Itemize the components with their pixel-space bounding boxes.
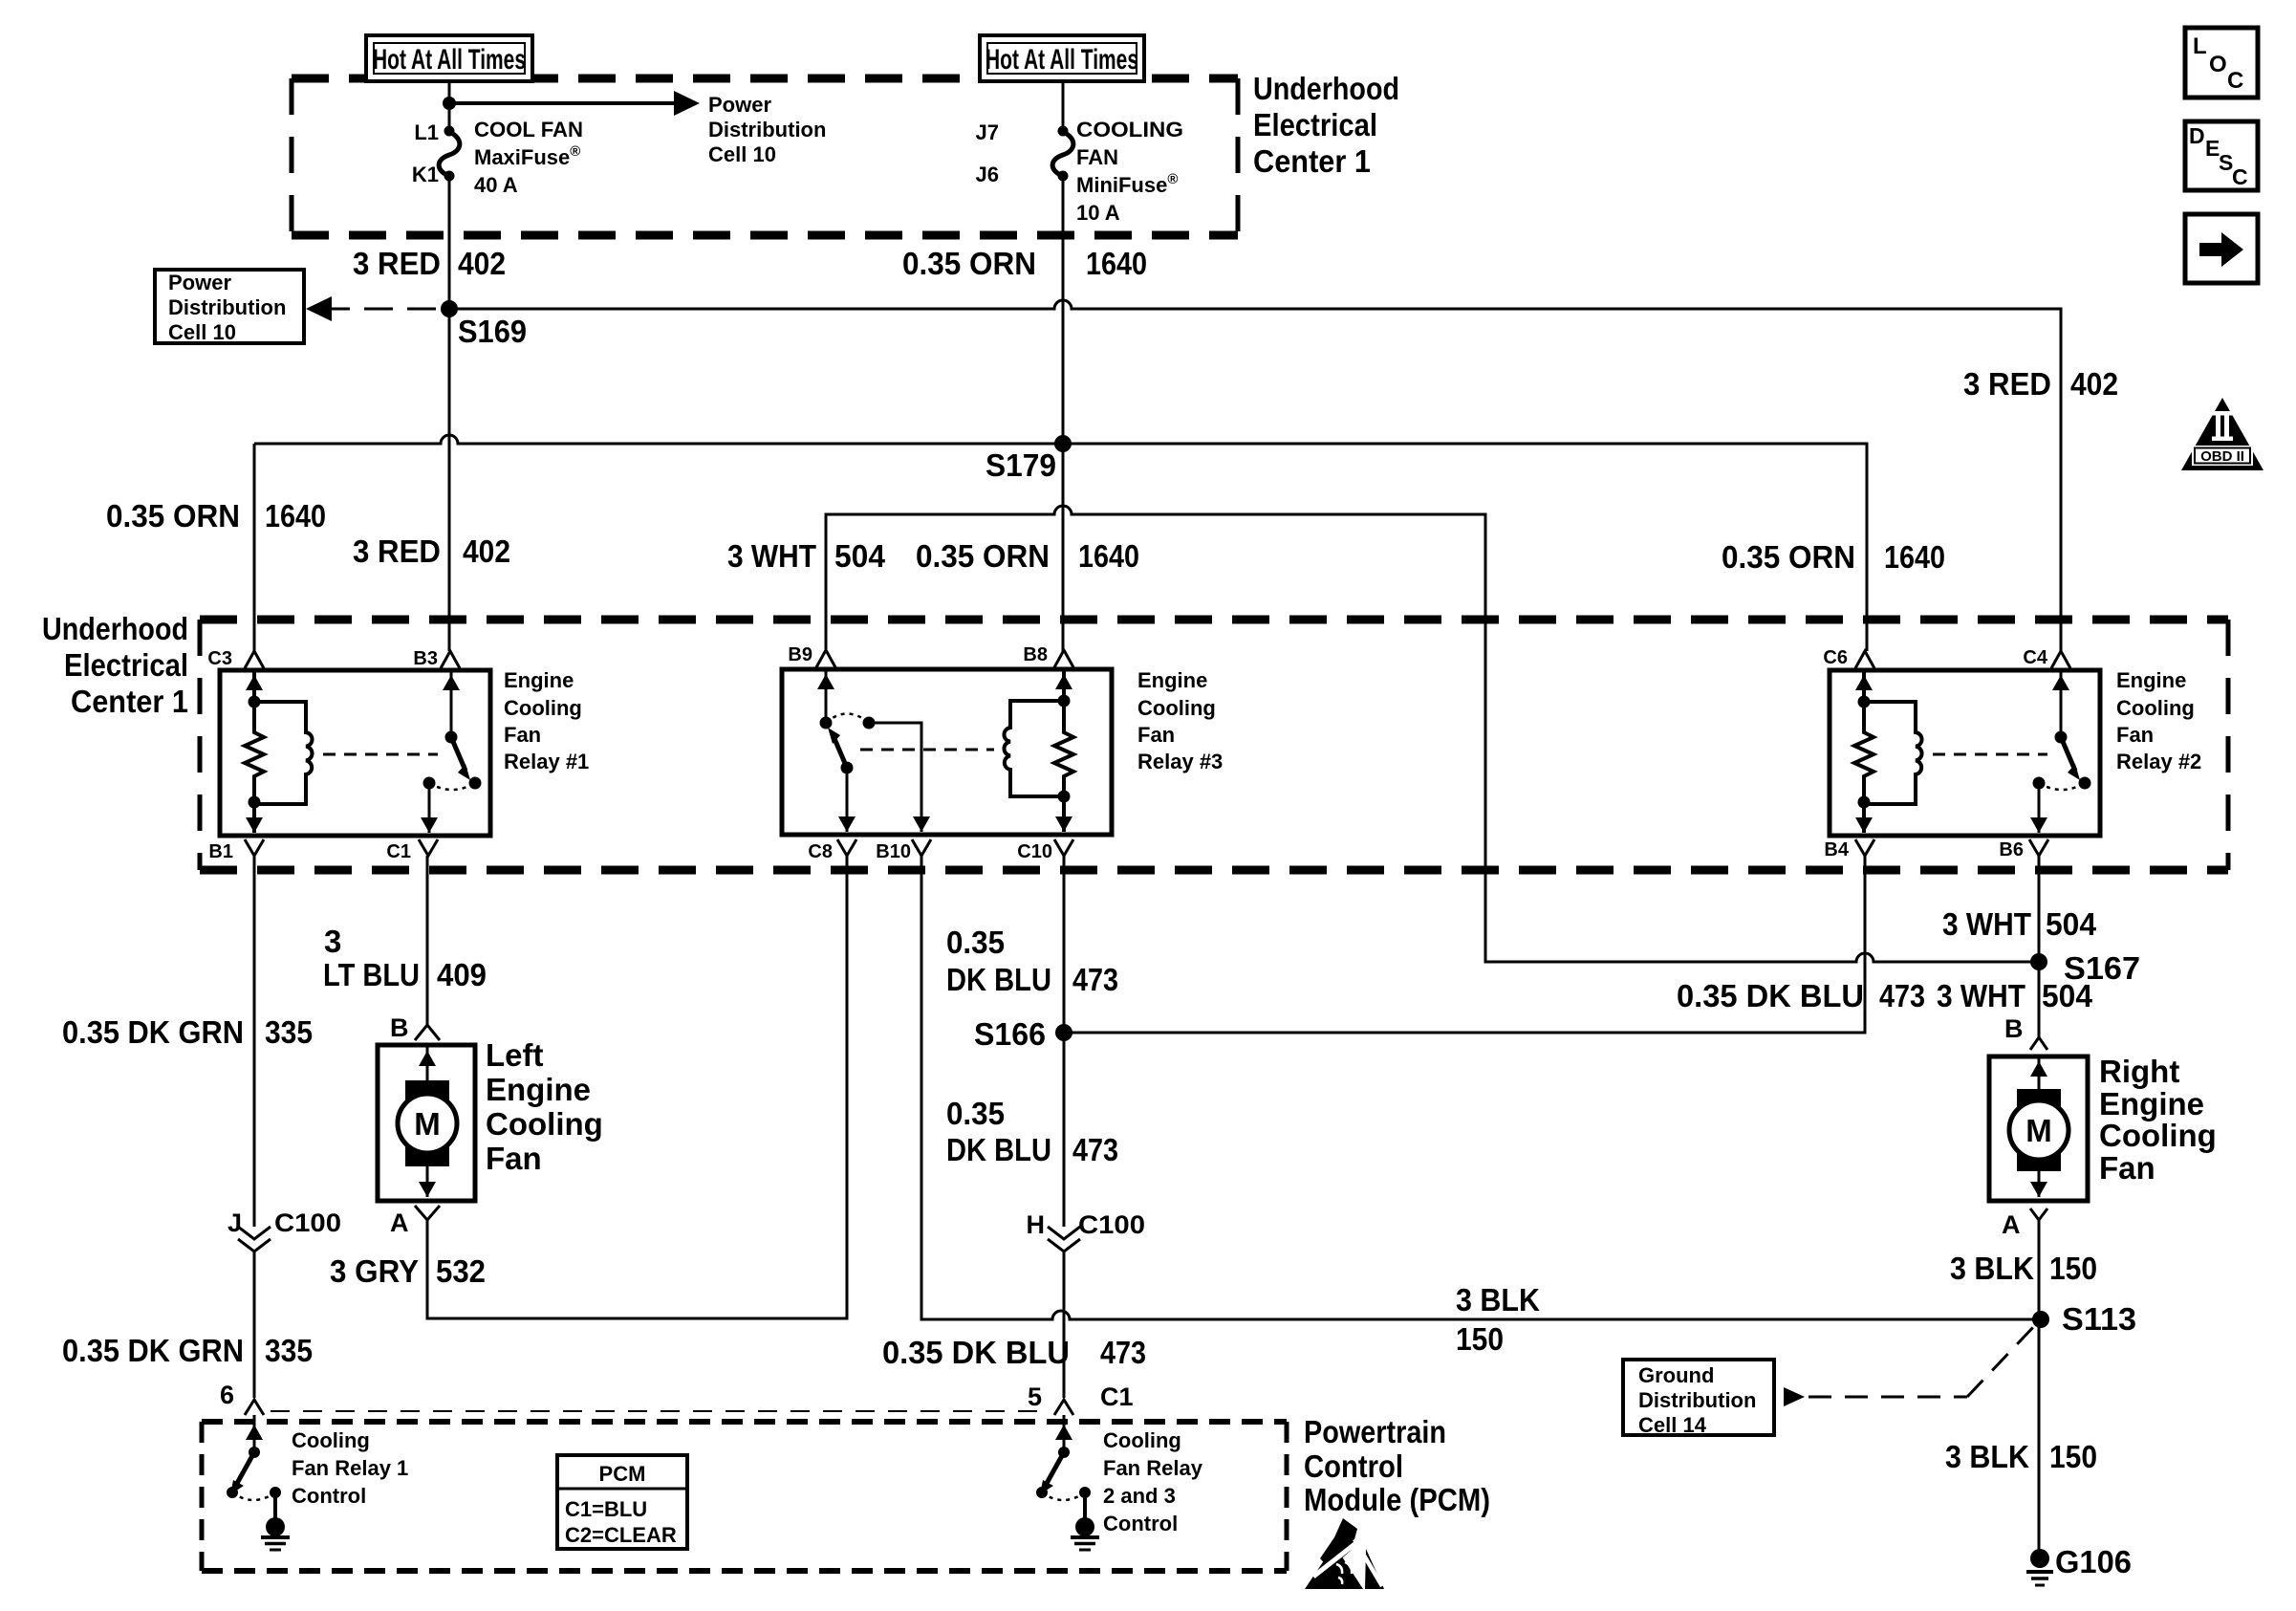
svg-text:0.35 DK GRN: 0.35 DK GRN xyxy=(62,1333,244,1368)
svg-text:532: 532 xyxy=(436,1253,486,1289)
svg-text:Underhood: Underhood xyxy=(1253,71,1399,106)
relay #3 coil xyxy=(1004,701,1064,796)
svg-text:Cooling: Cooling xyxy=(2116,696,2195,720)
wire: 3 WHT 504 relay3 B9 up over to S167 xyxy=(727,506,2039,962)
svg-text:Power: Power xyxy=(708,93,771,117)
svg-text:M: M xyxy=(2025,1113,2052,1148)
relay #3 pin B9 xyxy=(788,644,835,667)
svg-text:C6: C6 xyxy=(1823,647,1848,668)
relay #1 coil xyxy=(254,702,313,804)
relay #1 pin C1 xyxy=(386,839,438,862)
relay: Engine Cooling Fan Relay #2 box xyxy=(1830,670,2100,836)
relay #2 pin C4 xyxy=(2023,647,2070,668)
PCM pin 5 / C1 xyxy=(1028,1382,1134,1415)
label: Engine Cooling Fan Relay #2 xyxy=(2116,668,2201,773)
svg-text:473: 473 xyxy=(1072,1132,1118,1167)
svg-text:Module (PCM): Module (PCM) xyxy=(1304,1482,1490,1517)
svg-text:402: 402 xyxy=(458,246,506,281)
relay #1 pin B3 xyxy=(413,648,460,669)
svg-text:Relay #2: Relay #2 xyxy=(2116,750,2201,773)
svg-text:409: 409 xyxy=(437,957,487,992)
icon: LOC box xyxy=(2185,28,2258,98)
svg-text:C: C xyxy=(2227,68,2243,94)
power source tag: Hot At All Times (right) xyxy=(980,35,1144,81)
svg-text:LT BLU: LT BLU xyxy=(323,957,420,992)
wire: 3 GRY 532 left fan A to relay3 C8 xyxy=(330,856,847,1318)
svg-text:B9: B9 xyxy=(788,644,812,665)
wire: 0.35 ORN 1640 S179 line to relay1 C3 and relay2 C6 xyxy=(106,435,1945,651)
label: Underhood Electrical Center 1 (top right) xyxy=(1253,71,1399,179)
motor: Right Engine Cooling Fan xyxy=(1989,1014,2217,1239)
svg-text:10 A: 10 A xyxy=(1076,201,1120,225)
svg-text:C4: C4 xyxy=(2023,647,2047,668)
svg-text:G106: G106 xyxy=(2055,1544,2132,1579)
svg-text:473: 473 xyxy=(1100,1335,1146,1370)
svg-text:3 WHT: 3 WHT xyxy=(1942,906,2031,942)
svg-text:S169: S169 xyxy=(458,314,527,349)
svg-text:S179: S179 xyxy=(986,447,1056,483)
svg-text:Engine: Engine xyxy=(504,668,574,692)
svg-text:C2=CLEAR: C2=CLEAR xyxy=(565,1523,677,1547)
svg-text:MaxiFuse®: MaxiFuse® xyxy=(474,143,580,169)
svg-text:J7: J7 xyxy=(976,120,999,144)
svg-text:Cooling: Cooling xyxy=(1103,1428,1181,1452)
Underhood Electrical Center 1 dashed box (main) xyxy=(200,620,2228,870)
svg-text:C10: C10 xyxy=(1017,841,1052,862)
label: Engine Cooling Fan Relay #1 xyxy=(504,668,589,773)
svg-text:COOLING: COOLING xyxy=(1076,118,1183,142)
wire: 0.35 DK GRN 335 relay1 B1 down to PCM pin 6 xyxy=(62,856,313,1398)
svg-text:Electrical: Electrical xyxy=(64,647,188,683)
wire: 0.35 DK BLU 473 S166 to relay2 B4 xyxy=(1064,856,1925,1033)
svg-text:473: 473 xyxy=(1072,962,1118,997)
relay: Engine Cooling Fan Relay #1 box xyxy=(220,670,490,836)
svg-text:C1: C1 xyxy=(386,841,411,862)
svg-text:FAN: FAN xyxy=(1076,145,1118,169)
svg-text:C100: C100 xyxy=(1078,1210,1145,1239)
PCM switch: Cooling Fan Relay 2 and 3 Control xyxy=(1036,1415,1203,1550)
connector C100 pin J xyxy=(227,1208,341,1252)
relay #3 pin C8 xyxy=(808,839,856,862)
splice S179 xyxy=(986,435,1072,483)
svg-text:C1=BLU: C1=BLU xyxy=(565,1497,647,1521)
svg-text:473: 473 xyxy=(1879,978,1925,1013)
fuse F1: COOL FAN MaxiFuse 40 A xyxy=(412,118,583,197)
svg-text:C100: C100 xyxy=(274,1208,341,1237)
svg-text:O: O xyxy=(2209,52,2227,77)
power source tag: Hot At All Times (left) xyxy=(366,35,532,81)
ESD static sensitive symbol xyxy=(1305,1518,1384,1589)
svg-text:150: 150 xyxy=(2049,1251,2097,1286)
svg-text:Ground: Ground xyxy=(1638,1363,1714,1387)
svg-text:C1: C1 xyxy=(1100,1382,1134,1411)
svg-text:Fan: Fan xyxy=(2116,723,2154,747)
svg-text:3 BLK: 3 BLK xyxy=(1945,1439,2029,1474)
svg-text:OBD II: OBD II xyxy=(2200,448,2244,465)
svg-text:5: 5 xyxy=(1028,1382,1042,1411)
svg-text:Fan Relay: Fan Relay xyxy=(1103,1456,1203,1480)
svg-text:504: 504 xyxy=(2042,978,2093,1013)
wire: 0.35 DK BLU 473 relay3 C10 down to S166 and PCM pin 5 xyxy=(882,856,1146,1398)
svg-text:A: A xyxy=(2002,1210,2021,1239)
svg-text:0.35 DK BLU: 0.35 DK BLU xyxy=(882,1335,1070,1370)
svg-text:Cooling: Cooling xyxy=(504,696,582,720)
svg-text:L: L xyxy=(2193,33,2207,59)
svg-text:Hot At All Times: Hot At All Times xyxy=(986,44,1138,76)
Powertrain Control Module dashed box xyxy=(202,1422,1287,1571)
svg-text:B10: B10 xyxy=(876,841,911,862)
icon: OBD II triangle xyxy=(2181,398,2264,470)
svg-text:3 BLK: 3 BLK xyxy=(1456,1282,1540,1317)
wire: battery feed to fuse L1 xyxy=(448,81,451,134)
splice S166 xyxy=(974,1016,1072,1052)
wire: dashed link S113 to Ground Distribution xyxy=(1784,1323,2037,1406)
svg-text:J6: J6 xyxy=(976,163,999,186)
svg-text:B6: B6 xyxy=(1999,839,2024,860)
relay #3 control dashed link xyxy=(860,749,994,751)
svg-text:Control: Control xyxy=(1103,1512,1178,1535)
svg-text:Engine: Engine xyxy=(486,1072,591,1107)
svg-text:Hot At All Times: Hot At All Times xyxy=(373,44,526,76)
ref box: Power Distribution Cell 10 xyxy=(155,270,304,344)
svg-text:DK BLU: DK BLU xyxy=(946,962,1051,997)
svg-text:40 A: 40 A xyxy=(474,173,518,197)
svg-text:1640: 1640 xyxy=(1078,538,1139,574)
relay #2 pin B6 xyxy=(1999,839,2048,860)
wire: 3 LT BLU 409 relay1 C1 down to left fan B xyxy=(323,856,487,1025)
svg-text:H: H xyxy=(1027,1210,1046,1239)
svg-text:3: 3 xyxy=(324,924,341,959)
relay #2 switch xyxy=(2030,672,2091,833)
PCM pin 6 xyxy=(220,1381,264,1415)
relay: Engine Cooling Fan Relay #3 box xyxy=(782,669,1112,835)
svg-text:Distribution: Distribution xyxy=(168,295,286,319)
relay #1 switch xyxy=(421,672,482,833)
svg-text:6: 6 xyxy=(220,1381,234,1409)
svg-text:K1: K1 xyxy=(412,163,439,186)
svg-text:3 WHT: 3 WHT xyxy=(1937,978,2025,1013)
ground G106 xyxy=(2026,1544,2132,1585)
label: Powertrain Control Module (PCM) xyxy=(1304,1414,1490,1517)
svg-text:3 RED: 3 RED xyxy=(1963,366,2051,402)
svg-text:0.35: 0.35 xyxy=(946,925,1005,960)
svg-text:Cell 10: Cell 10 xyxy=(708,142,776,166)
svg-text:Cooling: Cooling xyxy=(1137,696,1216,720)
svg-text:Fan Relay 1: Fan Relay 1 xyxy=(292,1456,408,1480)
svg-text:0.35: 0.35 xyxy=(946,1096,1005,1131)
svg-text:J: J xyxy=(227,1208,242,1237)
svg-text:B: B xyxy=(390,1013,409,1042)
svg-text:B8: B8 xyxy=(1023,644,1048,665)
splice S167 xyxy=(1937,906,2140,1013)
svg-text:Fan: Fan xyxy=(504,723,541,747)
wire: 3 BLK 150 right fan A down through S113 to G106 xyxy=(1945,1220,2097,1550)
svg-text:0.35 ORN: 0.35 ORN xyxy=(1722,539,1855,575)
relay #1 pin C3 xyxy=(207,648,264,669)
svg-text:Engine: Engine xyxy=(1137,668,1207,692)
svg-text:A: A xyxy=(390,1208,409,1237)
svg-text:335: 335 xyxy=(265,1014,313,1050)
svg-text:Relay #1: Relay #1 xyxy=(504,750,589,773)
connector C1 dashed boundary line xyxy=(271,1410,1048,1412)
svg-text:Center 1: Center 1 xyxy=(1253,143,1371,179)
svg-text:Powertrain: Powertrain xyxy=(1304,1414,1446,1449)
svg-text:3 GRY: 3 GRY xyxy=(330,1253,419,1289)
svg-text:Distribution: Distribution xyxy=(1638,1388,1756,1412)
svg-text:150: 150 xyxy=(2049,1439,2097,1474)
relay #3 pin B8 xyxy=(1023,644,1073,667)
motor: Left Engine Cooling Fan xyxy=(378,1013,603,1237)
relay #1 pin B1 xyxy=(208,839,264,862)
svg-text:B: B xyxy=(2004,1014,2024,1043)
PCM switch: Cooling Fan Relay 1 Control xyxy=(227,1415,408,1550)
svg-text:3 BLK: 3 BLK xyxy=(1950,1251,2034,1286)
svg-text:2 and 3: 2 and 3 xyxy=(1103,1484,1176,1508)
svg-text:Left: Left xyxy=(486,1037,544,1073)
svg-text:3 WHT: 3 WHT xyxy=(727,538,816,574)
svg-text:B1: B1 xyxy=(208,841,233,862)
svg-text:C: C xyxy=(2232,164,2248,189)
svg-text:MiniFuse®: MiniFuse® xyxy=(1076,171,1178,197)
svg-text:DK BLU: DK BLU xyxy=(946,1132,1051,1167)
svg-text:L1: L1 xyxy=(414,120,439,144)
svg-text:Fan: Fan xyxy=(1137,723,1175,747)
svg-text:0.35 ORN: 0.35 ORN xyxy=(106,498,240,533)
svg-text:Cell 10: Cell 10 xyxy=(168,320,236,344)
svg-text:Power: Power xyxy=(168,271,231,294)
svg-text:PCM: PCM xyxy=(599,1462,646,1486)
wire: 0.35 ORN 1640 fuse J6 down to relay3 B8 xyxy=(902,176,1147,651)
svg-text:Engine: Engine xyxy=(2099,1086,2204,1121)
svg-text:Control: Control xyxy=(292,1484,366,1508)
svg-text:D: D xyxy=(2189,123,2205,148)
svg-text:0.35 ORN: 0.35 ORN xyxy=(902,246,1036,281)
wire: 3 WHT 504 relay2 B6 down through S167 to right fan B xyxy=(2038,856,2041,1037)
relay #1 control dashed link xyxy=(323,753,438,756)
svg-text:C8: C8 xyxy=(808,841,833,862)
svg-text:C3: C3 xyxy=(207,648,232,669)
relay #3 resistor xyxy=(1054,671,1073,832)
relay #3 pin B10 xyxy=(876,839,931,862)
svg-text:0.35 DK BLU: 0.35 DK BLU xyxy=(1677,978,1864,1013)
label: Engine Cooling Fan Relay #3 xyxy=(1137,668,1223,773)
relay #2 resistor xyxy=(1854,672,1874,833)
wire: 3 RED 402 from S169 right and down to relay2 C4 xyxy=(449,300,2118,651)
svg-text:1640: 1640 xyxy=(1086,246,1147,281)
svg-text:402: 402 xyxy=(2070,366,2118,402)
svg-text:Control: Control xyxy=(1304,1448,1403,1484)
icon: DESC box xyxy=(2185,121,2258,190)
icon: arrow box xyxy=(2185,214,2258,283)
svg-text:1640: 1640 xyxy=(265,498,326,533)
splice S169 xyxy=(441,300,527,349)
relay #1 resistor xyxy=(245,672,264,833)
svg-text:Right: Right xyxy=(2099,1054,2179,1089)
svg-text:Fan: Fan xyxy=(486,1141,542,1176)
relay #2 pin C6 xyxy=(1823,647,1874,668)
svg-text:Underhood: Underhood xyxy=(42,611,188,646)
svg-text:3 RED: 3 RED xyxy=(353,533,441,569)
svg-text:B4: B4 xyxy=(1824,839,1849,860)
svg-text:402: 402 xyxy=(463,533,510,569)
ref box: Ground Distribution Cell 14 xyxy=(1623,1360,1774,1437)
wire: dashed arrow to Power Distribution Cell 10 box xyxy=(306,296,436,321)
svg-text:335: 335 xyxy=(265,1333,313,1368)
relay #2 control dashed link xyxy=(1933,753,2047,756)
wire: 3 BLK 150 relay3 B10 down and right to S113 xyxy=(921,856,2041,1357)
svg-text:S113: S113 xyxy=(2062,1301,2136,1337)
fuse F2: COOLING FAN MiniFuse 10 A xyxy=(976,81,1183,225)
svg-text:Cooling: Cooling xyxy=(486,1106,603,1142)
svg-text:Center 1: Center 1 xyxy=(71,684,188,719)
splice S113 xyxy=(2032,1301,2136,1337)
svg-text:Fan: Fan xyxy=(2099,1150,2155,1186)
connector C100 pin H xyxy=(1027,1210,1146,1252)
svg-text:150: 150 xyxy=(1456,1321,1504,1357)
svg-text:Cooling: Cooling xyxy=(292,1428,370,1452)
relay #3 pin C10 xyxy=(1017,839,1073,862)
relay #2 coil xyxy=(1864,702,1922,804)
Underhood Electrical Center 1 dashed box (top) xyxy=(292,78,1238,235)
svg-text:Distribution: Distribution xyxy=(708,118,826,142)
svg-text:B3: B3 xyxy=(413,648,438,669)
svg-text:504: 504 xyxy=(834,538,886,574)
wire: branch arrow to Power Distribution Cell 10 xyxy=(443,91,826,166)
svg-text:3 RED: 3 RED xyxy=(353,246,441,281)
svg-text:1640: 1640 xyxy=(1884,539,1945,575)
label: Underhood Electrical Center 1 (left) xyxy=(42,611,188,719)
PCM connector legend box xyxy=(557,1455,687,1549)
relay #2 pin B4 xyxy=(1824,839,1874,860)
svg-text:Cooling: Cooling xyxy=(2099,1118,2217,1153)
svg-text:0.35 ORN: 0.35 ORN xyxy=(916,538,1050,574)
svg-text:Relay #3: Relay #3 xyxy=(1137,750,1223,773)
svg-text:COOL FAN: COOL FAN xyxy=(474,118,583,142)
svg-text:S166: S166 xyxy=(974,1016,1046,1052)
wire: 3 RED 402 fuse K1 to splice S169 xyxy=(353,176,506,309)
svg-text:Engine: Engine xyxy=(2116,668,2186,692)
svg-text:Cell 14: Cell 14 xyxy=(1638,1413,1707,1437)
svg-text:504: 504 xyxy=(2046,906,2097,942)
svg-text:Electrical: Electrical xyxy=(1253,107,1377,142)
svg-text:M: M xyxy=(414,1106,441,1142)
relay #3 switch xyxy=(817,671,930,832)
svg-text:0.35 DK GRN: 0.35 DK GRN xyxy=(62,1014,244,1050)
wire: 3 RED 402 S169 down to relay1 B3 xyxy=(353,309,510,651)
